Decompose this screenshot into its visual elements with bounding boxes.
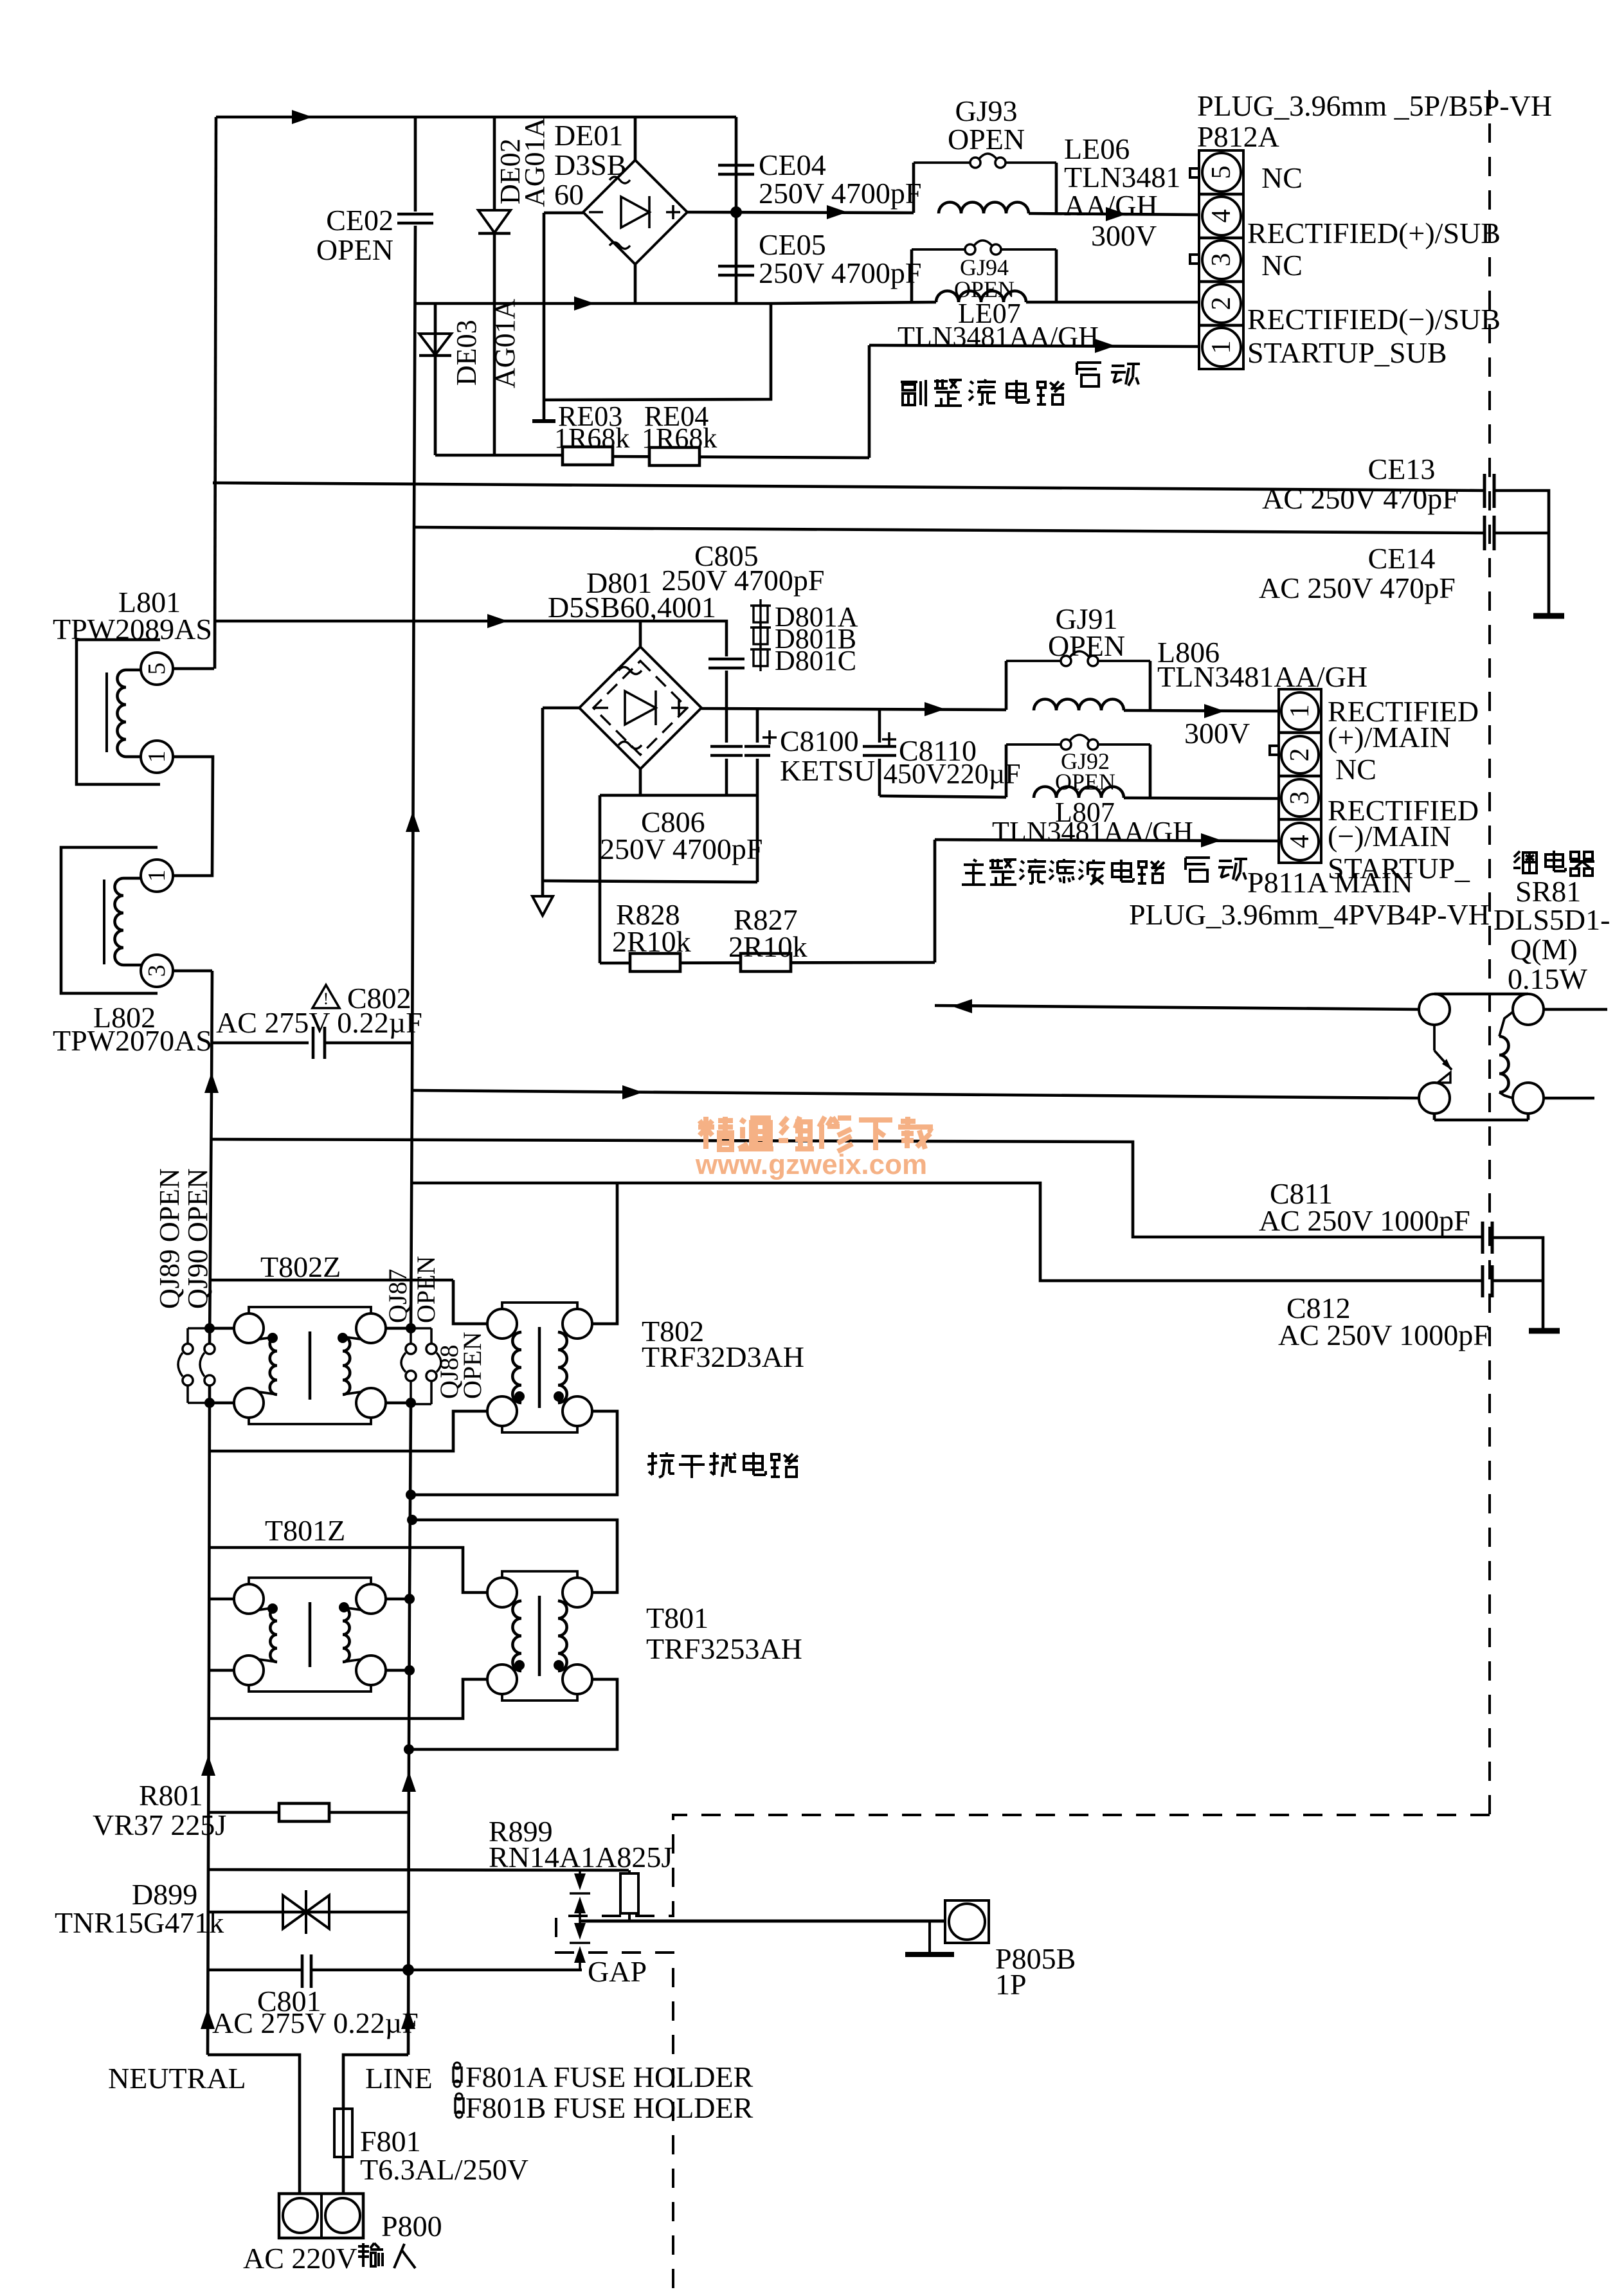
svg-text:STARTUP_SUB: STARTUP_SUB [1247,336,1447,369]
wire T802 BL to bus1 loop [210,1411,487,1451]
svg-text:DE01: DE01 [554,119,623,152]
wire feed to main bridge [214,621,726,656]
wire relay coil feed line [413,1090,1419,1098]
svg-text:QJ90 OPEN: QJ90 OPEN [182,1168,213,1309]
wire GJ91 block right bar [1149,661,1152,710]
pin 1 of P811A [1281,692,1319,730]
svg-text:F801A FUSE HOLDER: F801A FUSE HOLDER [465,2061,753,2093]
wire C811 to ground corner [1492,1238,1543,1281]
svg-text:TRF3253AH: TRF3253AH [646,1632,802,1665]
svg-text:1R68k: 1R68k [554,422,629,454]
inductor L801 core [105,672,108,752]
svg-text:3: 3 [1207,253,1236,267]
dashed chassis line (right vertical) [1488,90,1491,1815]
capacitor CE14 [1483,516,1486,550]
svg-text:TPW2070AS: TPW2070AS [53,1024,212,1057]
wire DE01 left corner to negative bar [544,212,583,215]
node junction bus2/C801 [402,1964,414,1976]
svg-text:CE02: CE02 [326,204,393,237]
svg-text:TLN3481AA/GH: TLN3481AA/GH [992,816,1193,847]
svg-text:3: 3 [1285,791,1315,805]
node junction of sub + output [730,206,742,218]
svg-text:VR37 225J: VR37 225J [93,1809,226,1841]
phase dot T801 right [554,1660,564,1670]
svg-text:5: 5 [143,663,170,675]
svg-text:NC: NC [1261,249,1303,282]
watermark 精通维修下载 www.gzweix.com [698,1117,734,1150]
svg-text:2: 2 [1285,748,1315,762]
pin 1 circle of L801 [141,741,173,773]
svg-text:R801: R801 [139,1779,203,1812]
tilde marks of D801 [618,667,642,674]
svg-text:QJ89 OPEN: QJ89 OPEN [154,1168,185,1309]
node junction bus2/T801 TR return [407,1515,417,1525]
wire C801 right to GAP [311,1969,582,1972]
arrow on main feed [487,614,508,628]
svg-text:DE03: DE03 [451,320,482,386]
wire left bus NEUTRAL (vertical, mid segment) [210,971,212,1344]
capacitor C8110 (electrolytic) [878,710,881,743]
wire D801 bottom corner down [639,769,642,795]
transformer T801Z [234,1584,264,1614]
capacitor CE05 [718,265,754,268]
svg-text:AC 220V: AC 220V [243,2242,357,2275]
svg-text:(−)/MAIN: (−)/MAIN [1328,820,1451,853]
svg-text:QJ87: QJ87 [383,1269,412,1323]
wire DE02 branch below diode [493,233,496,455]
svg-text:1P: 1P [995,1968,1027,2001]
tilde marks of DE01 [609,177,630,183]
relay SR81 coil winding [1499,1036,1509,1092]
svg-text:4: 4 [1285,835,1315,849]
svg-text:CE14: CE14 [1368,542,1436,575]
capacitor CE13 [1483,474,1486,508]
tab at pin 3 [1190,255,1199,264]
wire C806 to bottom line [725,759,728,795]
connector P811A body [1279,689,1321,863]
phase dot T801Z left [267,1603,278,1614]
svg-text:P800: P800 [381,2210,442,2242]
node junction bus1/T802Z bottom [204,1398,215,1408]
svg-text:Q(M): Q(M) [1510,933,1578,966]
svg-text:AC 250V 1000pF: AC 250V 1000pF [1278,1319,1490,1351]
pin 1 of P812A [1202,328,1241,366]
svg-text:PLUG_3.96mm _5P/B5P-VH: PLUG_3.96mm _5P/B5P-VH [1197,89,1552,122]
wire T802Z TR to bus2 [386,1327,411,1330]
wire sub minus loop right leg [544,303,771,400]
svg-text:AG01A: AG01A [519,117,550,207]
svg-text:1: 1 [1207,341,1236,354]
wire T801 TR return to bus2 [412,1520,617,1593]
svg-text:D3SB: D3SB [554,149,626,181]
svg-text:LINE: LINE [365,2062,433,2095]
wire gap mid line to P805B [580,1920,945,1923]
wire R899 row [208,1870,629,1870]
capacitor C812 [1481,1265,1484,1297]
svg-text:TRF32D3AH: TRF32D3AH [642,1340,804,1373]
jumper GJ93 [914,161,970,164]
bridge rectifier D801 (inner dashed diamond) [593,661,687,755]
svg-text:250V 4700pF: 250V 4700pF [600,833,762,865]
arrow on startup_main [1201,833,1222,847]
wire L801 pin5 to bus [173,667,214,671]
svg-text:CE13: CE13 [1368,453,1436,485]
wire startup_main riser [934,840,937,962]
ground (C811/C812) [1529,1328,1560,1334]
jumper GJ92 [1006,743,1061,746]
svg-text:GAP: GAP [588,1955,647,1988]
jumper QJ90 (in bus) [204,1344,215,1354]
node junction bus2/T801Z top [404,1594,415,1604]
wire T801Z BR to bus2 [386,1669,410,1672]
arrow up on bus1 (lower) [201,1755,215,1776]
svg-text:2R10k: 2R10k [728,930,807,963]
phase dot T802Z left [267,1333,278,1343]
plus sign of DE01 [666,211,680,213]
arrow pointing left on relay contact line [952,999,972,1013]
spark gap (upper pair) [579,1870,581,1874]
wire top rail of sub-rectifier [216,116,736,119]
inductor L802 core [103,880,105,964]
arrow up on bus2 (lower) [402,1771,416,1792]
svg-text:OPEN: OPEN [458,1332,487,1399]
capacitor C811 [1481,1222,1484,1254]
wire GJ94 block left bar [910,249,914,302]
svg-text:TLN3481AA/GH: TLN3481AA/GH [898,321,1099,352]
phase dot T801 left [514,1660,525,1670]
wire startup_main line to pin 4 [935,840,1279,841]
resistor R801 [279,1803,329,1821]
jumper GJ91 [1006,660,1061,662]
wire C806 left leg down to R828 [599,795,602,963]
wire C806 line below rail [725,710,728,743]
svg-text:TNR15G471k: TNR15G471k [55,1906,224,1939]
svg-text:250V 4700pF: 250V 4700pF [759,257,921,289]
resistor RE03 [563,447,613,465]
node junction bus2/T802Z bottom [406,1398,416,1408]
svg-text:T802Z: T802Z [260,1250,341,1283]
wire LE07 to pin 2 [1026,301,1199,304]
svg-text:OPEN: OPEN [1048,629,1125,662]
wire ground leg of D801 [541,708,545,880]
inductor L802 frame [61,847,158,993]
wire T802Z top link [212,1279,453,1282]
pin 4 of P811A [1281,823,1319,860]
wire GJ92 block right bar [1149,744,1152,798]
fuse holder icon F801B [455,2098,464,2113]
svg-text:P812A: P812A [1197,120,1279,153]
wire DE01 top corner to top rail [634,117,637,160]
bridge rectifier D801 (outer diamond) [579,647,701,769]
wire CE13 to ground corner [1494,491,1549,533]
minus sign of DE01 [589,211,603,213]
label 继电器 [1513,851,1537,873]
wire DE02 branch vertical from top rail [493,117,496,210]
label 副整流电路 [901,380,926,406]
wire L806 to pin 1 [1124,710,1279,711]
wire D801 left corner to ground leg [543,707,579,710]
arrow on relay coil feed [622,1085,643,1099]
wire T802 BR return to bus2 [411,1411,617,1495]
wire R chain [600,962,935,963]
svg-text:AC 275V 0.22µF: AC 275V 0.22µF [212,2007,419,2039]
label + of C8100 [762,736,777,739]
svg-text:NC: NC [1261,161,1303,194]
wire T802Z BR to bus2 [386,1402,411,1405]
svg-text:D801C: D801C [775,645,856,676]
wire C801 row [208,1969,302,1972]
relay SR81 coil circles [1513,994,1544,1025]
wire second bus LINE (vertical, below CE02) [411,226,415,1328]
wire T801Z top link [210,1546,410,1549]
label 主整流滤波电路 [962,860,986,885]
connector P805B [945,1900,989,1943]
arrow up on bus1 (mid) [204,1072,219,1093]
wire T801 TL feed [410,1548,487,1593]
label 启动 (main) [1186,858,1210,881]
svg-text:60: 60 [554,178,584,211]
transformer T801 [487,1578,517,1607]
wire NEUTRAL bracket [208,2055,300,2194]
connector P812A body [1199,150,1243,369]
wire GJ91 block left bar [1005,661,1008,710]
inductor L801 winding [118,670,127,757]
diode inside D801 [625,691,656,725]
svg-text:1: 1 [143,751,170,763]
wire left bus NEUTRAL (vertical, top segment) [215,117,216,669]
capacitor C805 [708,658,744,661]
arrow on sub lower AC rail [574,296,595,311]
node negative terminal bar of sub bridge [543,213,546,421]
transformer T802Z [234,1313,264,1343]
svg-text:!: ! [323,989,329,1008]
svg-text:AC 250V 470pF: AC 250V 470pF [1259,572,1456,604]
jumper QJ89 [186,1328,189,1344]
svg-text:OPEN: OPEN [948,123,1025,156]
wire sub lower AC rail (continues to LE07 block) [771,302,936,303]
wire left bus NEUTRAL (vertical, bottom segment) [208,1385,210,2055]
wire C812 line [411,1183,1483,1281]
wire GJ94 block right bar [1055,249,1058,302]
wire C811 line [212,1139,1483,1237]
label 抗干扰电路 [647,1452,674,1477]
pin 4 of P812A [1202,197,1241,235]
arrow on main + rail (right) [1204,704,1225,718]
svg-text:4: 4 [1207,210,1236,223]
label warning triangle C802 [312,985,339,1008]
arrow on top rail [292,110,312,124]
svg-text:AG01A: AG01A [489,298,521,388]
inductor L802 winding [115,878,124,965]
wire between RE04 and startup corner [611,456,869,458]
transformer T802 [487,1309,517,1339]
relay SR81 frame bottom [1434,1119,1528,1122]
wire relay top right stub [1544,1008,1607,1011]
inductor LE07 [936,291,1026,303]
wire C802 right [325,1042,413,1045]
wire T801Z TR to bus2 [386,1598,410,1601]
wire second bus LINE (vertical, upper part above CE02) [414,117,417,212]
wire L802 pin3 to bus [173,970,212,973]
minus sign of D801 [593,707,608,709]
inductor L806 [1034,699,1124,711]
resistor R828 [630,953,680,971]
arrow up on bus1 (bottom) [201,2008,215,2029]
wire second bus LINE (vertical, below T802Z jumpers) [408,1404,411,2055]
wire D801 top corner up to feed [639,621,642,647]
svg-text:AA/GH: AA/GH [1064,189,1158,222]
wire L801 pin1 jog down to L802 pin1 [173,757,213,876]
wire startup_sub line to pin 1 [869,345,1199,347]
svg-text:1R68k: 1R68k [642,422,717,454]
relay SR81 contact circles [1419,994,1450,1025]
pin 3 of P811A [1281,779,1319,817]
node junction bus2/T801 BR return [404,1744,414,1755]
wire C805 to + junction [725,671,728,710]
wire T802Z TL to bus [210,1327,234,1330]
ground (CE13/CE14) [1533,613,1564,619]
svg-text:1: 1 [1285,705,1315,718]
svg-text:2: 2 [1207,297,1236,311]
plus sign of D801 [671,707,687,709]
wire LE06 to pin 4 [1029,213,1199,215]
wire GJ93 block right bar [1055,163,1058,213]
node junction bus2/T802 BR return [406,1490,416,1500]
svg-text:TLN3481AA/GH: TLN3481AA/GH [1157,660,1367,693]
wire sub lower AC rail [415,302,771,305]
diode D801A (small symbol) [753,606,768,622]
svg-text:(+)/MAIN: (+)/MAIN [1328,721,1451,753]
pin 3 of P812A [1202,240,1241,279]
arrow on 300V sub line [1106,207,1126,221]
wire C802 left [212,1042,309,1045]
svg-text:450V220µF: 450V220µF [883,758,1021,790]
diode inside DE01 [621,197,649,228]
inductor LE06 [939,203,1029,214]
phase dot T802Z right [338,1333,348,1343]
wire CE14 rail [414,527,1484,533]
pin 5 of P812A [1202,153,1241,192]
wire L807 to pin 3 [1124,798,1279,799]
node junction bus2/T801Z bottom [404,1665,415,1675]
fuse holder icon F801A [453,2068,462,2082]
wire T802 TR up to C812 line [592,1183,617,1324]
inductor L807 [1034,787,1124,799]
capacitor CE02 (in series in bus) [397,213,433,216]
svg-text:T801: T801 [646,1602,708,1634]
relay SR81 frame top [1434,993,1528,996]
diode D801C (small symbol) [753,649,768,666]
arrow on startup_sub line [1095,339,1115,353]
pin 1 circle of L802 [141,860,173,892]
arrow on main + rail (left) [925,702,945,716]
capacitor CE04 [718,164,754,167]
jumper GJ94 [912,248,965,251]
wire CE04 branch [735,117,738,212]
svg-text:PLUG_3.96mm_4PVB4P-VH: PLUG_3.96mm_4PVB4P-VH [1129,898,1490,931]
connector P800 [279,2194,363,2238]
svg-text:OPEN: OPEN [411,1256,440,1323]
svg-text:2R10k: 2R10k [612,925,691,958]
wire main + rail (bridge to GJ91 block) [701,708,1006,710]
svg-text:1: 1 [143,870,170,882]
relay SR81 armature [1433,1025,1436,1051]
svg-text:250V 4700pF: 250V 4700pF [759,177,921,210]
label 启动 (sub) [1077,363,1101,386]
svg-text:KETSU: KETSU [780,754,875,787]
svg-text:RN14A1A825J: RN14A1A825J [489,1841,672,1873]
svg-text:AC 250V 1000pF: AC 250V 1000pF [1259,1204,1470,1237]
inductor L801 frame [77,640,160,784]
svg-text:NC: NC [1335,753,1376,786]
wire CE13 rail [213,483,1484,491]
ground arrow of main bridge [532,896,553,916]
capacitor C806 [710,745,743,748]
svg-text:RECTIFIED(+)/SUB: RECTIFIED(+)/SUB [1247,217,1501,249]
svg-text:AC 250V 470pF: AC 250V 470pF [1262,482,1459,515]
wire LINE bracket [343,2055,408,2194]
phase dot T802 left [514,1391,525,1402]
svg-text:C8100: C8100 [780,725,859,757]
svg-text:OPEN: OPEN [316,233,393,266]
wire main - rail from C8110 [880,796,1006,797]
arrow up on bus2 (upper) [406,811,420,832]
pin 5 circle of L801 [141,653,173,685]
jumper QJ88 [411,1327,431,1330]
resistor R899 (vertical) [620,1873,638,1913]
svg-text:T6.3AL/250V: T6.3AL/250V [360,2153,528,2186]
svg-text:P811A MAIN: P811A MAIN [1247,866,1413,899]
wire sub + output rail [687,212,914,213]
capacitor C801 [301,1954,304,1988]
arrow up on bus2 (bottom) [401,2008,415,2029]
wire C806 bottom line [600,794,757,797]
wire D899 row [208,1911,409,1914]
dashed chassis line (bottom jog) [556,1815,1490,2289]
svg-text:3: 3 [143,965,170,977]
svg-text:5: 5 [1207,166,1236,179]
ground (P805B line) [928,1921,931,1952]
svg-text:T801Z: T801Z [265,1514,345,1547]
wire C8100 bottom line to ground leg [543,881,757,882]
wire T802Z BL to bus [210,1402,234,1405]
capacitor C8100 (electrolytic) [756,710,759,743]
diode DE02 [478,210,510,233]
resistor RE04 [649,447,699,465]
pin 2 of P812A [1202,284,1241,323]
svg-text:300V: 300V [1184,717,1250,750]
tab at pin 2 of P811A [1270,746,1279,755]
svg-text:D5SB60,4001: D5SB60,4001 [548,591,716,624]
phase dot T802 right [554,1391,564,1402]
spark gap (lower pair) [579,1921,581,1924]
node junction bus2/T802Z top [406,1323,416,1333]
wire DE01 bottom corner to lower rail [634,264,637,303]
diode DE03 [419,334,451,355]
svg-text:RECTIFIED(−)/SUB: RECTIFIED(−)/SUB [1247,303,1501,336]
wire DE03 branch vertical [434,305,437,455]
label + of C8110 [882,738,896,741]
wire C812 to ground [1492,1279,1543,1283]
wire GJ93 block left bar [912,163,916,213]
jumper QJ87 (in bus2) [410,1328,412,1344]
tab at pin 5 [1190,168,1199,177]
wire RE chain bottom [435,454,564,457]
wire startup_sub riser [868,345,871,458]
wire relay bottom right stub [1544,1097,1594,1100]
node junction bus1/T802Z top [204,1323,215,1333]
svg-text:F801B FUSE HOLDER: F801B FUSE HOLDER [465,2091,753,2124]
